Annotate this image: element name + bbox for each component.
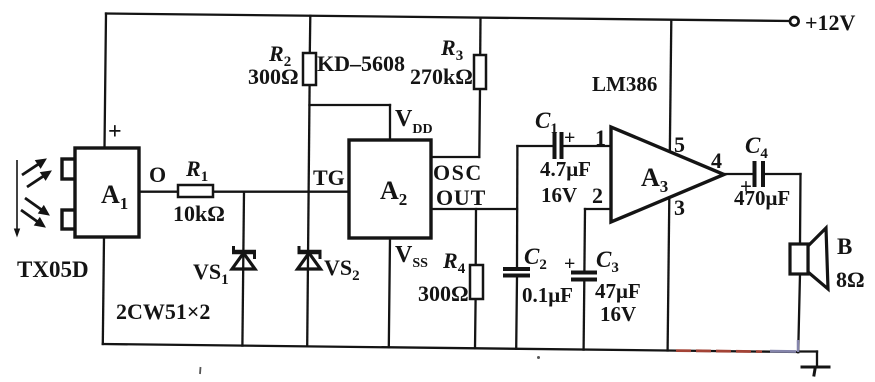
svg-text:+: + xyxy=(564,127,575,149)
svg-text:8Ω: 8Ω xyxy=(836,267,865,292)
svg-text:LM386: LM386 xyxy=(592,72,657,96)
svg-text:300Ω: 300Ω xyxy=(248,64,299,89)
svg-text:10kΩ: 10kΩ xyxy=(173,201,225,226)
svg-text:5: 5 xyxy=(674,132,685,157)
svg-text:OSC: OSC xyxy=(433,160,483,185)
svg-text:+: + xyxy=(564,253,575,275)
svg-text:0.1μF: 0.1μF xyxy=(522,283,573,307)
svg-text:470μF: 470μF xyxy=(734,186,790,210)
svg-text:O: O xyxy=(149,162,166,187)
svg-text:+12V: +12V xyxy=(805,10,856,35)
svg-text:3: 3 xyxy=(674,195,685,220)
svg-text:TX05D: TX05D xyxy=(17,257,89,282)
svg-text:KD–5608: KD–5608 xyxy=(317,51,405,76)
svg-text:+: + xyxy=(108,119,122,145)
svg-text:47μF: 47μF xyxy=(595,279,641,303)
svg-text:2CW51×2: 2CW51×2 xyxy=(116,299,210,324)
svg-text:TG: TG xyxy=(313,165,345,190)
svg-text:B: B xyxy=(837,234,852,259)
svg-text:4.7μF: 4.7μF xyxy=(540,157,591,181)
svg-text:1: 1 xyxy=(595,125,606,150)
svg-text:4: 4 xyxy=(711,148,722,173)
svg-text:16V: 16V xyxy=(541,183,577,207)
svg-text:270kΩ: 270kΩ xyxy=(410,64,473,89)
svg-text:2: 2 xyxy=(592,183,603,208)
svg-text:OUT: OUT xyxy=(436,185,486,210)
svg-text:16V: 16V xyxy=(600,302,636,326)
svg-text:300Ω: 300Ω xyxy=(418,281,469,306)
